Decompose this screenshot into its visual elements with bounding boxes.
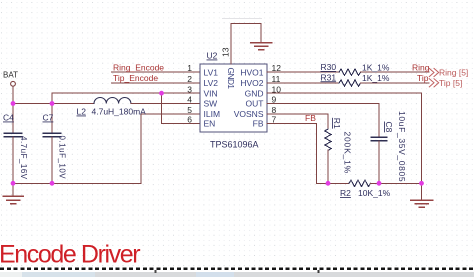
svg-text:6: 6 (187, 115, 192, 125)
port BAT (11, 81, 16, 86)
wire pin7 FB down (267, 124, 317, 184)
svg-text:10K_1%: 10K_1% (358, 188, 391, 198)
svg-text:Ring_Encode: Ring_Encode (113, 63, 164, 73)
svg-text:13: 13 (221, 47, 231, 57)
junction left ground (11, 181, 16, 186)
svg-text:VOSNS: VOSNS (234, 109, 264, 119)
svg-text:11: 11 (272, 74, 281, 84)
op-amp style IC U2 (TPS61096A) box (200, 64, 267, 132)
svg-text:LV1: LV1 (204, 68, 219, 78)
svg-text:OUT: OUT (246, 99, 264, 109)
resistor R1 (325, 129, 331, 151)
junction C8 bottom (377, 181, 382, 186)
svg-text:12: 12 (272, 63, 282, 73)
wire VIN to EN tie (162, 93, 201, 123)
svg-text:GND1: GND1 (226, 68, 236, 90)
page tick mark right (317, 270, 319, 273)
svg-text:ILIM: ILIM (204, 109, 221, 119)
svg-text:1: 1 (187, 63, 192, 73)
texts (3, 47, 281, 124)
wire VIN line (52, 92, 200, 94)
wire Ring_Encode pin1 (112, 71, 201, 73)
wire pin8 VOSNS to R1 (267, 114, 328, 129)
svg-text:4: 4 (187, 95, 192, 105)
svg-text:FB: FB (253, 119, 264, 129)
off-page connector Tip (429, 79, 438, 87)
svg-text:10uF_35V_0805: 10uF_35V_0805 (397, 111, 407, 182)
wire pin10 GND to bottom right ground (267, 93, 422, 183)
bottom strip (0, 272, 474, 277)
svg-text:C7: C7 (43, 113, 54, 123)
svg-text:4.7uH_180mA: 4.7uH_180mA (92, 107, 147, 117)
wire C7 top to VIN (51, 93, 53, 103)
wire pin12 to R30 (267, 71, 339, 73)
wire battery rail left (13, 103, 94, 105)
page tick mark left (155, 270, 157, 273)
svg-text:8: 8 (272, 105, 277, 115)
svg-text:TPS61096A: TPS61096A (210, 140, 259, 150)
wire R31 to Tip (361, 82, 430, 84)
svg-text:9: 9 (272, 95, 277, 105)
ground left (12, 183, 14, 196)
inductor L2 (94, 98, 131, 104)
svg-text:7: 7 (272, 115, 277, 125)
svg-text:4.7uF_16V: 4.7uF_16V (19, 136, 28, 180)
wire right rail to R2 (317, 182, 350, 184)
svg-text:2: 2 (187, 74, 192, 84)
junction C7 bottom (50, 181, 55, 186)
svg-text:FB: FB (305, 113, 316, 123)
junction C7 top (50, 101, 55, 106)
resistor R30 (339, 69, 361, 75)
svg-text:L2: L2 (77, 107, 87, 117)
capacitor C7 (51, 104, 53, 134)
junction right ground (419, 181, 424, 186)
resistor R2 (349, 180, 371, 186)
svg-text:Tip: Tip (417, 73, 429, 83)
svg-text:1K_1%: 1K_1% (362, 73, 390, 83)
svg-text:3: 3 (187, 84, 192, 94)
svg-text:10: 10 (272, 84, 282, 94)
svg-text:LV2: LV2 (204, 78, 219, 88)
capacitor C8 (371, 136, 387, 138)
svg-text:HVO1: HVO1 (240, 68, 263, 78)
svg-text:R1: R1 (332, 118, 342, 129)
svg-text:1K_1%: 1K_1% (362, 63, 390, 73)
off-page connector Ring (429, 68, 438, 76)
svg-text:R2: R2 (340, 188, 351, 198)
junction R1 bottom (326, 181, 331, 186)
svg-text:R30: R30 (321, 62, 337, 72)
svg-text:Tip_Encode: Tip_Encode (113, 73, 158, 83)
wire R2 to ground node (371, 182, 422, 184)
wire Tip_Encode pin2 (112, 82, 201, 84)
svg-text:GND: GND (245, 88, 264, 98)
svg-text:VIN: VIN (204, 88, 218, 98)
wire GND1 pin13 to top ground (231, 24, 261, 65)
dashed separator (0, 268, 474, 270)
wire BAT to rail (12, 86, 14, 103)
svg-text:C4: C4 (3, 113, 14, 123)
svg-text:R31: R31 (321, 72, 337, 82)
junction BAT rail (11, 101, 16, 106)
svg-text:C8: C8 (384, 122, 394, 133)
svg-text:Ring [5]: Ring [5] (439, 68, 468, 78)
svg-text:200K_1%: 200K_1% (343, 132, 353, 174)
wire R1 bottom (327, 150, 329, 183)
svg-text:EN: EN (204, 119, 216, 129)
svg-text:Encode Driver: Encode Driver (0, 241, 140, 269)
svg-text:Tip [5]: Tip [5] (439, 78, 462, 88)
svg-text:0.1uF_10V: 0.1uF_10V (58, 136, 67, 180)
wire pin9 OUT to C8 (267, 104, 379, 138)
svg-text:HVO2: HVO2 (240, 78, 263, 88)
wire pin11 to R31 (267, 82, 339, 84)
wire ILIM (141, 114, 200, 184)
svg-text:Ring: Ring (412, 63, 430, 73)
ground top (251, 42, 272, 44)
wire R30 to Ring (361, 71, 430, 73)
svg-text:U2: U2 (207, 51, 218, 61)
svg-text:BAT: BAT (3, 71, 18, 80)
capacitor C4 (12, 104, 14, 134)
junction VIN-EN tie (159, 91, 164, 96)
wire left ground rail (13, 182, 141, 184)
wire inductor to SW pin4 (131, 103, 200, 105)
ground bottom right (421, 183, 423, 199)
svg-text:SW: SW (204, 99, 218, 109)
grid ruler mark top center (222, 18, 262, 20)
svg-text:5: 5 (187, 105, 192, 115)
resistor R31 (339, 80, 361, 86)
